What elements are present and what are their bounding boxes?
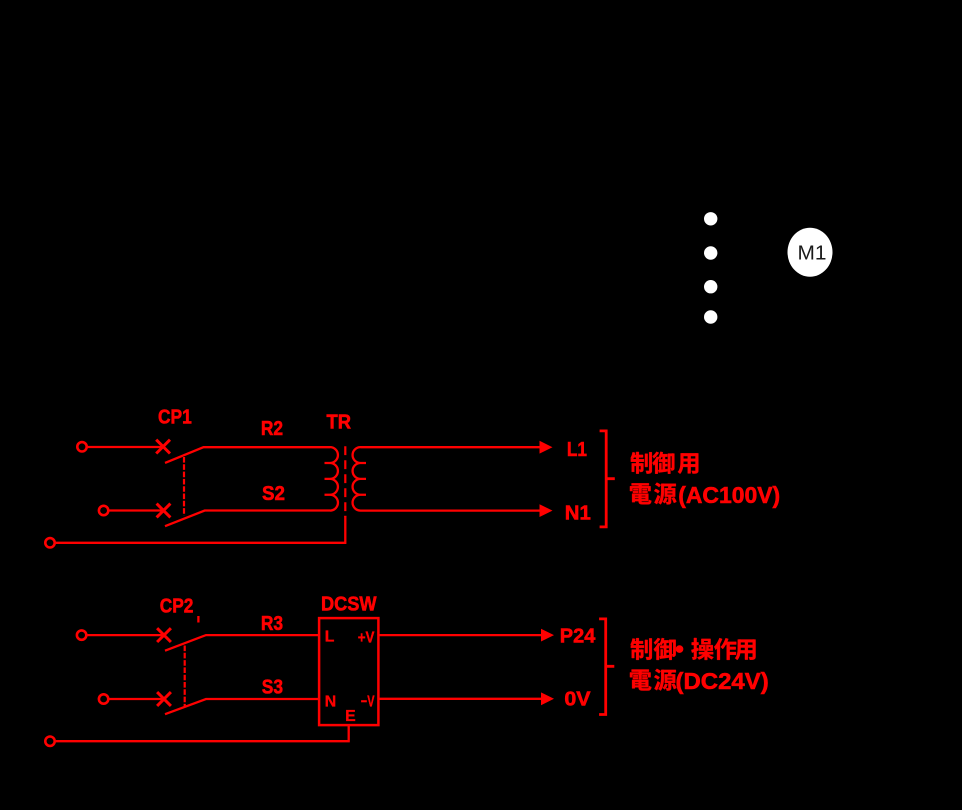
svg-text:DCSW: DCSW <box>321 593 377 616</box>
svg-text:L1: L1 <box>567 438 587 461</box>
svg-text:L: L <box>325 628 335 645</box>
svg-text:CP1: CP1 <box>158 406 192 429</box>
svg-text:TR: TR <box>327 410 352 433</box>
svg-text:P24: P24 <box>560 625 596 648</box>
svg-text:0V: 0V <box>564 687 591 710</box>
svg-text:−V: −V <box>361 693 375 710</box>
svg-text:CP2: CP2 <box>160 595 194 618</box>
svg-text:M1: M1 <box>798 242 827 265</box>
svg-text:S3: S3 <box>262 675 283 698</box>
svg-text:+V: +V <box>358 629 375 646</box>
svg-text:(DC24V): (DC24V) <box>676 668 769 694</box>
svg-text:E: E <box>345 708 356 725</box>
svg-text:R2: R2 <box>261 417 283 440</box>
svg-text:N1: N1 <box>565 501 591 524</box>
svg-text:(AC100V): (AC100V) <box>678 482 780 508</box>
svg-text:R3: R3 <box>261 612 283 635</box>
svg-text:S2: S2 <box>262 482 285 505</box>
svg-text:N: N <box>325 693 336 710</box>
